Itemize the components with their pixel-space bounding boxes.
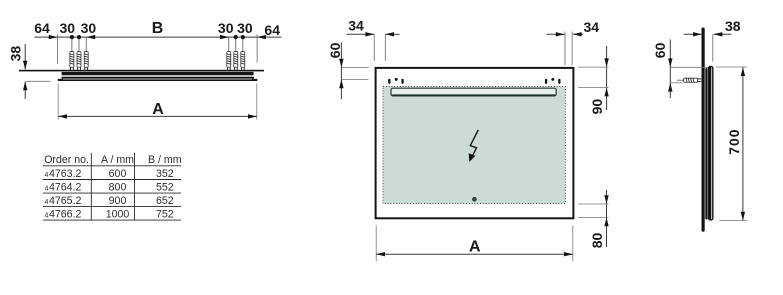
- 700 arrows: [741, 67, 745, 76]
- 34 left arrows: [365, 32, 374, 36]
- dimension 38 (top view) vertical line: [24, 44, 26, 69]
- svg-text:Order no.: Order no.: [44, 154, 89, 166]
- svg-text:38: 38: [8, 46, 24, 62]
- frame lip bar (top view): [58, 79, 258, 81]
- 60 front ref lines: [342, 67, 369, 69]
- screw S6: [241, 37, 245, 70]
- svg-text:A / mm: A / mm: [101, 154, 134, 166]
- mirror glass profile (side view): [708, 66, 714, 221]
- 34 left extension lines: [373, 34, 375, 61]
- dimension A (top view) extension lines: [57, 84, 59, 120]
- illuminated mirror area: [383, 87, 565, 204]
- 60 side ref lines: [671, 66, 708, 68]
- dimension 90: vertical line: [606, 46, 608, 110]
- arrow 38 down: [23, 61, 27, 70]
- svg-text:552: 552: [156, 181, 174, 193]
- 38 side arrows: [693, 32, 702, 36]
- mounting dot left: [395, 78, 398, 81]
- mounting pill left 2: [401, 79, 403, 84]
- dimension 700: vertical line: [742, 67, 744, 220]
- table grid: [43, 153, 181, 220]
- svg-text:90: 90: [589, 99, 605, 115]
- frame hairline: [63, 78, 252, 81]
- chain dot 3: [234, 35, 238, 39]
- arrow 64-left: [49, 35, 58, 39]
- back panel bar (side view): [705, 68, 707, 220]
- svg-text:A: A: [152, 101, 164, 118]
- glass inner white line: [710, 68, 713, 220]
- svg-text:80: 80: [589, 233, 605, 249]
- svg-text:4766.2: 4766.2: [49, 209, 82, 221]
- svg-text:352: 352: [156, 168, 174, 180]
- svg-text:600: 600: [109, 168, 127, 180]
- dimension 34 right: line: [547, 33, 565, 35]
- svg-text:4765.2: 4765.2: [49, 195, 82, 207]
- 34 right arrows: [556, 32, 565, 36]
- svg-text:64: 64: [34, 20, 50, 36]
- screw S3: [84, 37, 88, 70]
- 60 side arrows: [668, 58, 672, 67]
- svg-text:4764.2: 4764.2: [49, 181, 82, 193]
- 80 ref lines: [578, 203, 609, 205]
- arrow B-right: [220, 35, 229, 39]
- arrow A right: [248, 114, 257, 118]
- svg-text:34: 34: [348, 18, 364, 34]
- screw S2: [77, 37, 81, 70]
- svg-text:800: 800: [109, 181, 127, 193]
- arrow 38 up: [23, 81, 27, 90]
- screw S4: [227, 37, 231, 70]
- svg-text:700: 700: [726, 128, 742, 154]
- svg-text:1000: 1000: [106, 209, 130, 221]
- svg-text:60: 60: [327, 42, 343, 58]
- svg-text:30: 30: [218, 20, 234, 36]
- svg-text:4: 4: [45, 213, 49, 220]
- svg-text:4: 4: [45, 199, 49, 206]
- svg-text:752: 752: [156, 209, 174, 221]
- svg-text:B: B: [152, 20, 164, 37]
- LED light fixture: [391, 88, 556, 96]
- mounting pill right 1: [545, 79, 547, 84]
- svg-text:64: 64: [264, 22, 280, 38]
- extension line frame right edge: [256, 34, 258, 62]
- svg-text:30: 30: [60, 20, 76, 36]
- svg-text:B / mm: B / mm: [148, 154, 182, 166]
- dimension 60 front: vertical line: [340, 43, 342, 100]
- lightning bolt symbol: [469, 130, 479, 162]
- horizontal screw (side view): [677, 78, 701, 82]
- dimension 38 side: line: [684, 33, 702, 35]
- wall bar (side view): [702, 28, 705, 232]
- svg-text:34: 34: [584, 19, 600, 35]
- svg-text:60: 60: [652, 42, 668, 58]
- chain dot 4: [241, 35, 245, 39]
- arrow A left: [58, 114, 67, 118]
- dimension A (top view) line: [58, 115, 257, 117]
- mounting pill left 1: [388, 79, 390, 84]
- mounting dot right: [551, 78, 554, 81]
- frame bar (top view): [62, 77, 254, 79]
- 60 front arrows: [339, 59, 343, 68]
- dimension A front: line: [376, 253, 573, 255]
- 90 arrows: [604, 58, 608, 67]
- screw S5: [234, 37, 238, 70]
- chain dot 1: [70, 35, 74, 39]
- dimension 34 left: line: [347, 33, 375, 35]
- svg-text:4: 4: [45, 185, 49, 192]
- mounting pill right 2: [558, 79, 560, 84]
- 38 side extension line: [712, 34, 714, 61]
- svg-text:38: 38: [725, 18, 741, 34]
- svg-text:900: 900: [109, 195, 127, 207]
- svg-text:4763.2: 4763.2: [49, 168, 82, 180]
- top dimension chain line: [35, 36, 282, 38]
- ref line 38 bottom: [26, 80, 51, 82]
- mirror glass bar (top view): [62, 72, 254, 75]
- extension line frame left edge: [57, 34, 59, 63]
- 34 right extension lines: [564, 32, 566, 66]
- dimension 60 side: vertical line: [669, 40, 671, 99]
- svg-text:A: A: [469, 239, 481, 256]
- svg-text:652: 652: [156, 195, 174, 207]
- dimension A front: extension lines: [375, 226, 377, 262]
- arrow B-left: [86, 35, 95, 39]
- 700 ref lines: [716, 66, 747, 68]
- dimension 80: vertical line: [606, 190, 608, 247]
- svg-text:30: 30: [237, 20, 253, 36]
- 90 ref lines: [578, 66, 609, 68]
- chain dot 2: [77, 35, 81, 39]
- sensor dot: [473, 197, 477, 201]
- 80 arrows: [604, 195, 608, 204]
- arrow 64-right: [257, 35, 266, 39]
- svg-text:30: 30: [81, 20, 97, 36]
- A front arrows: [376, 252, 385, 256]
- screw S1: [70, 37, 74, 70]
- svg-text:4: 4: [45, 172, 49, 179]
- wall line (top view): [19, 70, 264, 72]
- mirror body (front view): [376, 68, 574, 218]
